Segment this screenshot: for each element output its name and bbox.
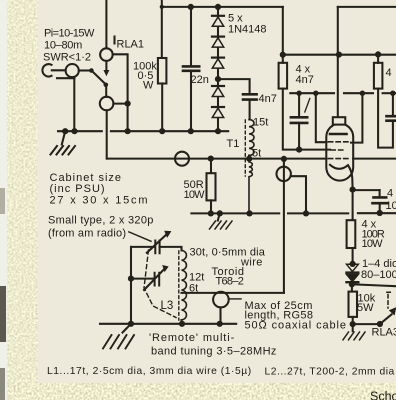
wire bias node to relay (352, 284, 396, 286)
wire 100k feed from top edge (161, 0, 163, 58)
capacitor 4x100p (373, 197, 388, 203)
wire 4n7 to T1 (249, 100, 251, 120)
wire pivot to feedthrough (105, 85, 107, 97)
junction 10k / earth (350, 321, 356, 327)
junction earth bus / 50R (208, 210, 214, 216)
transformer T1 winding 5t (249, 159, 252, 214)
chassis ground D hatching (343, 332, 365, 340)
diode D3 (1N4148) (212, 56, 224, 58)
wire L3 bottom lead (180, 320, 182, 324)
junction earth bus / 100p cap (377, 210, 383, 216)
junction output bus / T1 tap (246, 156, 252, 162)
switch blade (91, 71, 105, 85)
svg-text:(inc PSU): (inc PSU) (50, 183, 106, 195)
svg-text:27 x 30 x 15cm: 27 x 30 x 15cm (50, 195, 150, 207)
RLA1 leader tick (113, 37, 115, 44)
bulkhead feedthrough circle (175, 152, 189, 166)
capacitor 22n (183, 66, 199, 70)
resistor Rg2 body (279, 63, 288, 89)
RLA3 contact arm (380, 315, 392, 325)
junction ground bus / 100k (159, 128, 165, 134)
cathode lead (348, 165, 353, 189)
anode HT top right segment (338, 6, 396, 8)
anode feed line (337, 7, 339, 118)
leader from am radio note (129, 232, 151, 241)
earth bus left segment (191, 212, 279, 214)
junction earth bus / T1 (246, 210, 252, 216)
svg-text:W: W (143, 80, 154, 92)
grid caps bus left (290, 92, 334, 94)
grid caps bus right (383, 92, 396, 94)
wire g1 left (316, 93, 327, 142)
arrowhead RLA1 (103, 70, 109, 76)
chassis ground B hatching (210, 221, 233, 229)
svg-text:L1...17t, 2·5cm dia, 3mm dia w: L1...17t, 2·5cm dia, 3mm dia wire (1·5µ) (47, 366, 252, 377)
junction ground bus / 22n (188, 128, 194, 134)
wire socket to SWR circle (52, 69, 66, 71)
wire sleeve down to ground bus (73, 77, 75, 131)
input coax socket (42, 64, 51, 76)
junction ground bus / sleeve (71, 128, 77, 134)
wire 100k lower lead (161, 84, 163, 132)
wire diode tap to 4n7 (218, 79, 250, 94)
junction top bus / 100k (160, 5, 164, 9)
resistor anode right body (374, 63, 383, 89)
svg-text:L3: L3 (161, 300, 174, 312)
bias diode E1 (347, 264, 359, 271)
wire SWR circle to blade (79, 69, 92, 71)
left margin paper texture strip (0, 0, 38, 400)
junction cathode node (350, 187, 356, 193)
svg-text:5t: 5t (252, 147, 261, 159)
earth bus right segment (358, 212, 396, 214)
chassis ground A stub (62, 131, 65, 144)
coax line down from output bus (283, 159, 285, 293)
feedthrough circle lower (100, 97, 114, 111)
capacitor 4n7 grid (298, 93, 300, 116)
RLA3 dashed linkage (387, 292, 393, 308)
ground bus right segment (111, 130, 228, 132)
junction tuning earth bus / box (128, 321, 134, 327)
wire Rg2 lower lead to g2 (283, 89, 330, 150)
svg-text:10–80m: 10–80m (44, 40, 82, 52)
wire anode resistor lower elbow (378, 89, 393, 148)
svg-text:L2...27t, T200-2, 2mm dia: L2...27t, T200-2, 2mm dia (265, 367, 395, 378)
ground bus left segment (58, 130, 102, 132)
junction HT bus / anode line (336, 52, 342, 58)
valve top cap nub (333, 117, 346, 124)
wire feedthrough to output bus corner (106, 110, 108, 158)
svg-text:1N4148: 1N4148 (228, 23, 267, 35)
wire 22n upper lead (190, 7, 192, 67)
svg-text:'Remote' multi-: 'Remote' multi- (149, 332, 235, 344)
junction grid bus / g1 left (313, 91, 318, 96)
svg-text:Pi=10-15W: Pi=10-15W (44, 28, 95, 40)
junction output bus / coax (281, 156, 287, 162)
HT top bus (162, 6, 283, 8)
grid caps bus mid (344, 92, 373, 94)
svg-text:RLA1: RLA1 (117, 39, 145, 51)
svg-text:4n7: 4n7 (259, 93, 277, 105)
chassis ground A hatching (51, 146, 76, 155)
wire Rg2 upper lead (282, 55, 284, 63)
coax shield stub lower (219, 307, 221, 323)
junction relay wire / feedthrough stub (125, 101, 131, 107)
label leader 4n7 (305, 99, 310, 113)
resistor 10k body (349, 292, 358, 317)
transformer T1 winding 15t (249, 120, 254, 156)
junction switch blade (89, 68, 94, 73)
resistor 4x100R body (347, 220, 356, 248)
coax feedthrough circle upper (277, 167, 291, 181)
relay actuation arrow (105, 61, 107, 71)
transformer T1 core (244, 120, 246, 176)
wire to 10k (351, 284, 353, 291)
wire anode resistor upper lead (377, 54, 379, 62)
capacitor right edge (387, 116, 396, 121)
variable capacitor VC2 (155, 273, 160, 286)
wire T1 tap to bus (248, 156, 250, 159)
svg-text:6t: 6t (189, 283, 198, 295)
svg-text:5W: 5W (357, 302, 374, 314)
svg-text:10W: 10W (184, 189, 206, 201)
valve grid g3 (329, 158, 352, 160)
left edge light sliver (0, 0, 7, 400)
valve grid g2 (331, 149, 346, 151)
wire VC1 to L3 (160, 247, 182, 250)
wire 50R lower lead (210, 200, 212, 213)
junction tuning earth bus / shield (217, 321, 223, 327)
resistor 100k body (158, 58, 167, 84)
svg-text:RLA3: RLA3 (372, 327, 396, 339)
junction g2 / 4n7 (296, 147, 302, 153)
junction grid bus / 4n7 (296, 91, 301, 96)
svg-text:Small type, 2 x 320p: Small type, 2 x 320p (48, 214, 154, 226)
HT second bus (283, 54, 396, 56)
valve cathode (330, 165, 348, 169)
junction grid bus / g1 right (360, 91, 365, 96)
junction diode tap (215, 76, 221, 82)
inductor L3 core (178, 251, 180, 320)
remote tuning earth bus (100, 323, 236, 325)
wire RLA1a to dropper (113, 54, 128, 131)
junction RLA3 arm (377, 321, 383, 327)
coax feedthrough circle lower (213, 292, 229, 308)
bottom scan noise strip (0, 383, 396, 400)
junction blade pivot (104, 83, 109, 88)
wire diode chain spine (217, 7, 219, 131)
SWR sensor circle (66, 64, 79, 77)
junction tuning box / VC2 (128, 276, 134, 282)
junction output bus / 50R (208, 156, 214, 162)
svg-text:15t: 15t (253, 116, 268, 128)
svg-text:band tuning 3·5–28MHz: band tuning 3·5–28MHz (151, 346, 277, 358)
junction ground bus / diode chain (215, 128, 221, 134)
valve envelope (326, 124, 353, 181)
tuning box top wire (131, 246, 155, 248)
chassis ground B stub (218, 213, 220, 220)
svg-text:4: 4 (386, 67, 392, 79)
junction 100R / diodes (350, 261, 356, 267)
wire cathode node to cap (353, 189, 380, 191)
wire feedthrough side stub (113, 103, 127, 105)
wire 10k lower lead (352, 317, 354, 324)
svg-text:T68–2: T68–2 (216, 275, 244, 287)
svg-text:10: 10 (386, 200, 396, 212)
junction ground bus / earth (62, 128, 68, 134)
socket sleeve stub (57, 77, 74, 79)
wire 22n lower lead (190, 71, 192, 131)
wire 100R lower lead (352, 248, 354, 264)
bias diode E2 (347, 274, 359, 281)
tuning box left wire (130, 247, 132, 324)
junction top bus / 22n (188, 4, 194, 10)
wire L3 6t tap to coax feedthrough (182, 292, 284, 294)
junction diodes / 10k / relay wire (349, 281, 355, 287)
junction top bus / diode chain (215, 4, 221, 10)
diode D5 (1N4148) (212, 106, 224, 108)
junction earth bus / shield stub (303, 210, 309, 216)
relay contact circle RLA1a (100, 48, 113, 61)
svg-text:Scho: Scho (370, 390, 396, 400)
capacitor 4n7 coupling (243, 94, 257, 99)
svg-text:10W: 10W (362, 238, 384, 250)
svg-text:SWR<1·2: SWR<1·2 (43, 52, 91, 64)
wire ground node to RLA3 (353, 323, 380, 325)
junction HT bus / Rg2 (280, 52, 286, 58)
valve grid g1 (329, 141, 352, 143)
junction ground bus / relay wire (125, 128, 131, 134)
junction earth bus / earth (217, 210, 223, 216)
wire right edge cap upper lead (392, 93, 394, 116)
svg-text:4: 4 (387, 188, 393, 200)
junction tuning earth bus / L3 (179, 321, 185, 327)
left edge dark blobs (0, 188, 6, 400)
diode D4 (1N4148) (212, 85, 224, 87)
coax shield stub upper (291, 176, 306, 213)
junction grid bus / edge cap (390, 91, 395, 96)
junction HT bus / anode resistor (375, 51, 381, 57)
wire cathode down (352, 190, 354, 221)
valve anode bar (330, 133, 347, 136)
svg-text:(from am radio): (from am radio) (48, 228, 126, 240)
diode D1 (1N4148) (212, 15, 224, 17)
output bus (107, 158, 327, 160)
svg-text:T1: T1 (227, 138, 240, 150)
variable capacitor VC1 (155, 241, 159, 254)
chassis ground C stub (123, 324, 132, 333)
svg-text:4n7: 4n7 (296, 74, 314, 86)
leader from coax note to feedthrough (229, 298, 241, 300)
diode D2 (1N4148) (212, 35, 224, 37)
svg-text:50Ω coaxial cable: 50Ω coaxial cable (245, 319, 347, 331)
chassis ground D stub (352, 324, 354, 331)
earth bus mid segment (288, 212, 348, 214)
tuning box mid wire (131, 278, 154, 280)
output bus right segment (353, 158, 396, 160)
inductor L3 winding (182, 250, 187, 320)
gang link dashed (144, 250, 176, 318)
HT bus corner down (282, 7, 284, 55)
wire RLA1 feed from top edge (105, 0, 107, 48)
svg-text:80–100: 80–100 (361, 269, 396, 281)
wire g1 right (351, 93, 362, 142)
chassis ground C hatching (103, 335, 134, 349)
resistor 50R body (210, 159, 212, 174)
svg-text:22n: 22n (191, 74, 209, 86)
